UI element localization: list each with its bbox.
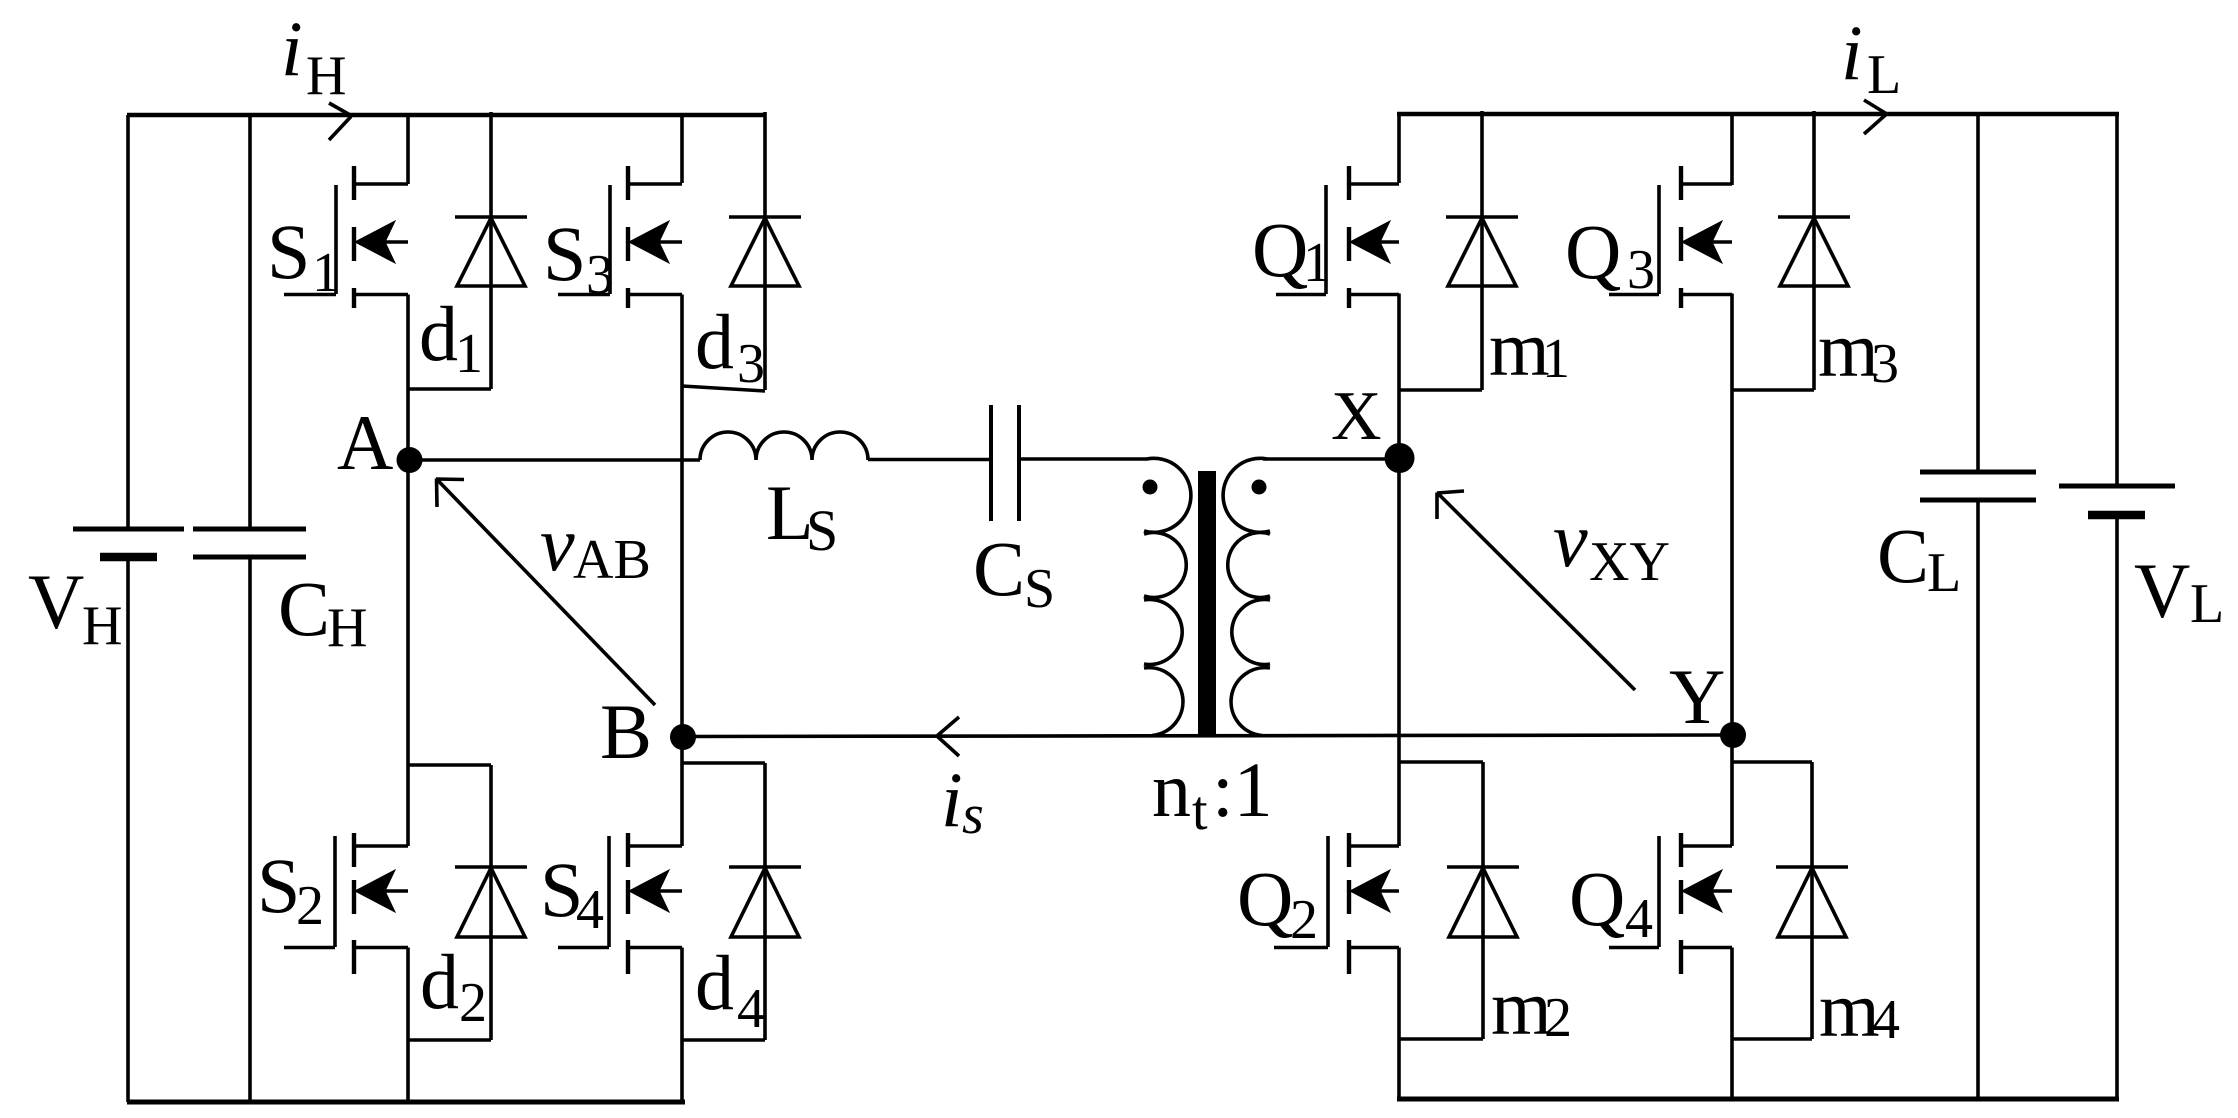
svg-text:i: i: [1841, 9, 1863, 96]
svg-text:n: n: [1152, 746, 1191, 833]
svg-text:Q: Q: [1252, 206, 1308, 293]
svg-text:L: L: [1867, 44, 1901, 106]
svg-text:m: m: [1489, 305, 1550, 392]
wire d1 branch vertical: [489, 112, 493, 389]
wire d4 branch vertical: [763, 763, 767, 1040]
svg-text:3: 3: [1871, 333, 1899, 395]
diode d4: [729, 865, 801, 869]
transformer secondary winding: [1223, 458, 1270, 735]
wire top rail of L-bridge (right): [1397, 112, 2119, 117]
wire left leg2 bottom segment: [680, 948, 684, 1103]
wire right leg1 drain segment: [1397, 114, 1401, 183]
mosfet S1: [354, 182, 408, 186]
svg-text:Q: Q: [1237, 855, 1293, 942]
capacitor C_L: [1976, 114, 1980, 472]
wire left leg2 drain segment: [680, 115, 684, 183]
svg-text:C: C: [278, 565, 330, 652]
mosfet S2: [354, 844, 408, 848]
wire left leg1 drain segment: [406, 115, 410, 184]
wire bottom rail of L-bridge (right): [1397, 1097, 2119, 1102]
wire m4 bottom connect: [1732, 1037, 1812, 1041]
svg-text:m: m: [1491, 964, 1552, 1051]
svg-text:S: S: [267, 208, 310, 295]
svg-text:2: 2: [1290, 889, 1318, 951]
svg-text:m: m: [1819, 966, 1880, 1053]
svg-text:2: 2: [459, 972, 487, 1034]
svg-text:Y: Y: [1669, 653, 1725, 740]
svg-text:1: 1: [455, 323, 483, 385]
wire left leg2 middle segment: [680, 295, 684, 847]
wire C_S to transformer: [1019, 457, 1148, 461]
svg-text:C: C: [973, 525, 1025, 612]
wire left leg1 bottom segment: [406, 948, 410, 1103]
svg-text:v: v: [540, 500, 575, 587]
svg-text:i: i: [941, 756, 963, 843]
svg-text:1: 1: [312, 242, 340, 304]
wire d2 bottom connect: [408, 1038, 491, 1042]
svg-text:H: H: [306, 45, 346, 107]
wire m1 branch vertical: [1480, 111, 1484, 390]
wire right leg2 drain segment: [1730, 114, 1734, 185]
svg-text:1: 1: [1303, 232, 1331, 294]
capacitor C_H: [248, 115, 252, 529]
diode d3: [729, 215, 801, 219]
svg-text:4: 4: [576, 879, 604, 941]
inductor L_S: [700, 432, 868, 460]
svg-text:B: B: [600, 688, 652, 775]
svg-text:V: V: [28, 558, 84, 645]
wire transformer secondary to node X: [1263, 457, 1399, 461]
wire d4 bottom connect: [682, 1038, 765, 1042]
svg-text:L: L: [2190, 573, 2224, 635]
svg-text:H: H: [82, 595, 122, 657]
wire d1 bottom connect: [408, 387, 491, 391]
svg-text:d: d: [419, 290, 458, 377]
diode m2: [1447, 865, 1519, 869]
wire d2 top connect: [408, 763, 491, 767]
wire left leg1 middle segment: [406, 295, 410, 847]
mosfet S3: [628, 182, 682, 186]
wire right leg2 bottom segment: [1730, 948, 1734, 1100]
mosfet S4: [628, 844, 682, 848]
svg-text:2: 2: [1544, 987, 1572, 1049]
svg-text:d: d: [420, 938, 459, 1025]
mosfet Q2: [1349, 844, 1399, 848]
secondary polarity dot: [1252, 480, 1267, 495]
svg-text:S: S: [1024, 558, 1055, 620]
arrow v_XY: [1438, 493, 1636, 690]
node A: [397, 447, 423, 473]
mosfet Q4: [1681, 844, 1732, 848]
wire top rail of H-bridge (left): [127, 113, 766, 118]
svg-text:C: C: [1877, 512, 1929, 599]
svg-text:1: 1: [1542, 328, 1570, 390]
svg-text:3: 3: [737, 333, 765, 395]
current arrow i_H: [329, 103, 351, 140]
wire d4 top connect: [682, 761, 765, 765]
svg-text:s: s: [962, 784, 984, 846]
svg-text:S: S: [806, 498, 838, 563]
svg-text:t: t: [1192, 780, 1208, 842]
current arrow i_s: [938, 717, 960, 756]
battery V_L: [2115, 114, 2119, 486]
svg-text::1: :1: [1212, 746, 1273, 833]
mosfet Q1: [1349, 182, 1399, 186]
wire bottom rail of H-bridge (left): [127, 1100, 685, 1105]
svg-text:3: 3: [1627, 239, 1655, 301]
svg-text:XY: XY: [1589, 531, 1670, 593]
diode d2: [455, 865, 527, 869]
transformer primary winding: [1144, 458, 1191, 735]
transformer core: [1198, 471, 1216, 735]
primary polarity dot: [1143, 480, 1158, 495]
svg-text:d: d: [695, 298, 734, 385]
wire m2 bottom connect: [1399, 1037, 1483, 1041]
svg-text:S: S: [543, 210, 586, 297]
svg-text:A: A: [337, 399, 393, 486]
arrow v_AB: [437, 479, 656, 705]
node B: [670, 724, 696, 750]
wire right leg1 bottom segment: [1397, 948, 1401, 1100]
capacitor C_S: [989, 405, 993, 521]
svg-text:4: 4: [1872, 989, 1900, 1051]
svg-text:X: X: [1331, 378, 1382, 455]
wire inductor to C_S: [868, 458, 991, 462]
svg-text:Q: Q: [1565, 208, 1621, 295]
diode m1: [1446, 215, 1518, 219]
svg-text:4: 4: [1625, 888, 1653, 950]
wire node A to inductor: [409, 458, 700, 462]
diode m4: [1776, 865, 1848, 869]
svg-text:AB: AB: [573, 529, 651, 591]
svg-text:2: 2: [296, 875, 324, 937]
node Y: [1720, 722, 1746, 748]
battery V_H: [126, 115, 130, 529]
svg-text:m: m: [1818, 306, 1879, 393]
svg-text:V: V: [2134, 547, 2190, 634]
wire m4 branch vertical: [1810, 762, 1814, 1039]
diode d1: [455, 215, 527, 219]
svg-text:v: v: [1553, 496, 1588, 583]
current arrow i_L: [1864, 100, 1886, 134]
wire d3 bottom connect (slanted): [682, 386, 765, 391]
wire m1 bottom connect: [1399, 388, 1482, 392]
wire m3 bottom connect: [1732, 388, 1814, 392]
svg-text:Q: Q: [1569, 855, 1625, 942]
svg-text:i: i: [281, 5, 303, 92]
svg-text:d: d: [695, 939, 734, 1026]
wire m2 top connect: [1399, 760, 1483, 764]
wire d2 branch vertical: [489, 765, 493, 1040]
svg-text:S: S: [257, 842, 300, 929]
svg-text:H: H: [327, 597, 367, 659]
svg-text:4: 4: [737, 978, 765, 1040]
wire right leg1 middle segment: [1397, 294, 1401, 847]
svg-text:3: 3: [586, 244, 614, 306]
diode m3: [1778, 215, 1850, 219]
node X: [1385, 443, 1415, 473]
wire m2 branch vertical: [1481, 762, 1485, 1039]
wire m3 branch vertical: [1812, 111, 1816, 390]
wire right leg2 middle segment: [1730, 294, 1734, 847]
wire d3 branch vertical: [763, 112, 767, 390]
svg-text:L: L: [1927, 542, 1961, 604]
wire m4 top connect: [1732, 760, 1812, 764]
wire node B to node Y (bottom link): [683, 735, 1733, 737]
mosfet Q3: [1681, 182, 1732, 186]
